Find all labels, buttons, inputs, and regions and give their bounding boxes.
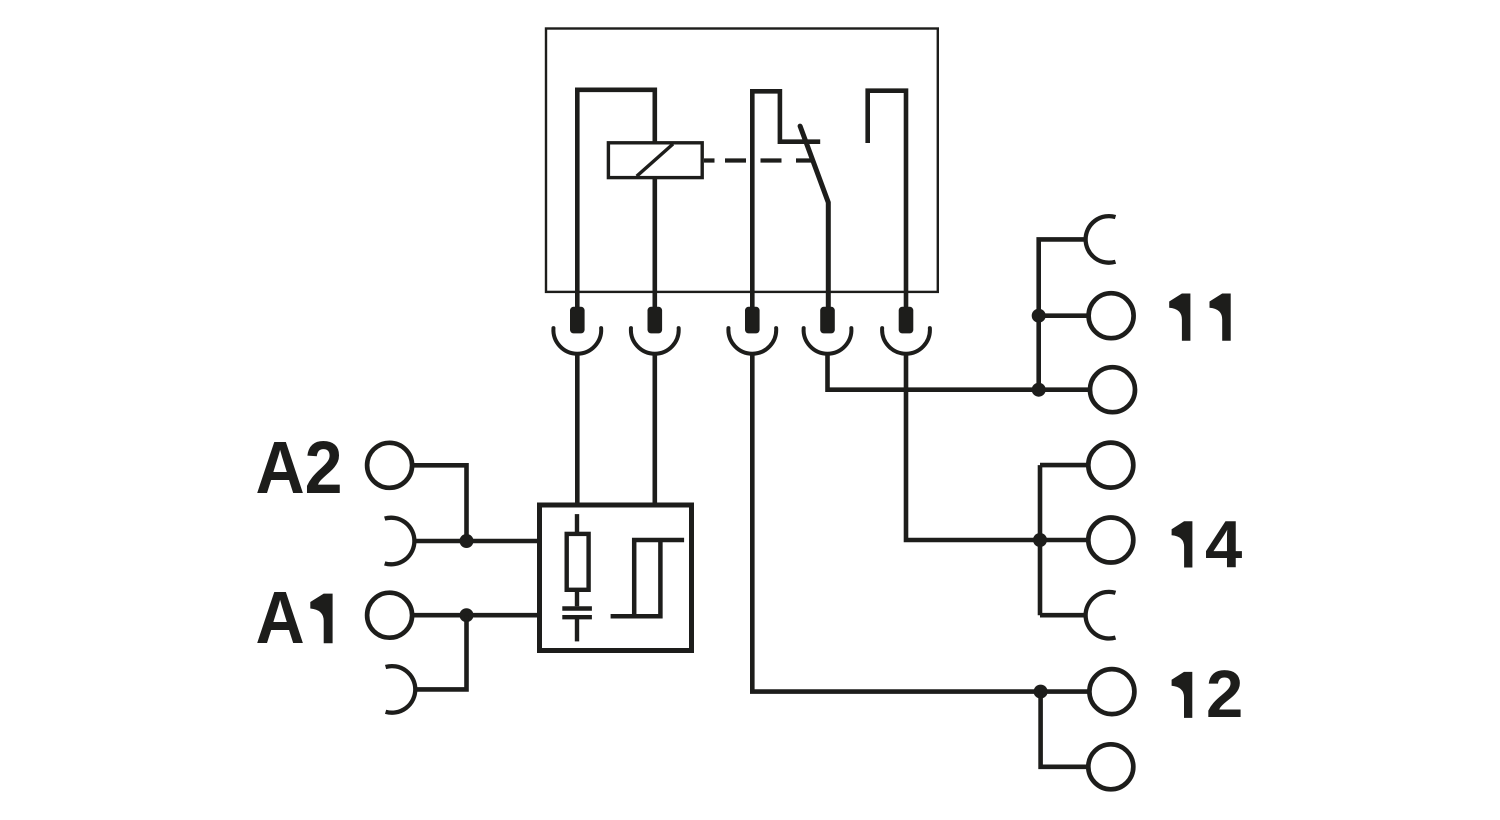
- terminal circle 12 upper: [1089, 669, 1134, 714]
- wire contact fixed terminal (pin3): [752, 91, 820, 307]
- terminal circle A1: [367, 593, 412, 638]
- junction dot A2: [460, 534, 474, 548]
- node 14 vertical bus: [1038, 465, 1043, 615]
- socket 5: [882, 328, 930, 354]
- socket 11 top (open right): [1086, 216, 1116, 263]
- terminal circle 11 lower: [1090, 367, 1135, 412]
- wire pin1 to suppressor box: [575, 353, 580, 505]
- socket 1: [553, 328, 601, 354]
- terminal circle 11 middle: [1089, 293, 1134, 338]
- label 11: [1169, 294, 1190, 341]
- capacitor C1 plate top: [562, 606, 592, 610]
- svg-text:A: A: [256, 577, 305, 659]
- svg-text:A2: A2: [256, 427, 343, 509]
- socket A2 (open left): [385, 518, 415, 565]
- resistor R1: [567, 534, 589, 590]
- junction dot A1: [460, 608, 474, 622]
- hysteresis symbol bottom-right branch: [611, 540, 661, 616]
- plug pin 4: [820, 307, 835, 334]
- socket 2: [631, 328, 679, 354]
- relay outline box K1: [546, 29, 938, 292]
- plug pin 5: [899, 307, 914, 334]
- wire to terminal 11 middle: [1039, 313, 1089, 318]
- wire A1 to suppressor box: [412, 613, 539, 618]
- capacitor C1 plate bottom: [562, 615, 592, 619]
- wire to terminal 14 top: [1040, 463, 1088, 468]
- capacitor C1 lead bottom: [575, 617, 579, 641]
- svg-text:4: 4: [1205, 508, 1242, 583]
- plug pin 1: [570, 307, 585, 334]
- terminal circle 14 top: [1088, 443, 1133, 488]
- svg-text:2: 2: [1206, 657, 1243, 732]
- terminal circle A2: [367, 443, 412, 488]
- wire socket A2 to suppressor box: [414, 539, 539, 544]
- wire A2 to bus: [412, 465, 466, 541]
- plug pin 2: [648, 307, 663, 334]
- wire coil leads (pin1 vertical + top bridge + pin2 drop): [577, 90, 655, 307]
- wire node 12 down to lower terminal: [1041, 692, 1089, 767]
- wire pin5 down and right to node 14: [906, 353, 1088, 540]
- dashed actuation link: [704, 158, 812, 162]
- socket 14 bottom (open right): [1086, 592, 1116, 639]
- junction dot node 12: [1034, 685, 1048, 699]
- terminal circle 14 middle: [1088, 518, 1133, 563]
- terminal circle 12 lower: [1088, 744, 1133, 789]
- wire pin2 to suppressor box: [652, 353, 657, 505]
- coil diagonal slash: [637, 144, 673, 176]
- wire pin3 down and right to node 12: [752, 353, 1089, 691]
- resistor R1 lead bottom: [575, 590, 579, 607]
- label 12: [1172, 672, 1193, 718]
- socket A1 (open left): [386, 666, 416, 713]
- wire A1 bus down to socket: [414, 615, 466, 689]
- node 11 vertical bus: [1039, 239, 1086, 389]
- resistor R1 lead top: [575, 514, 579, 534]
- wire pin2 below coil: [652, 178, 657, 307]
- coil K1 rectangle: [608, 143, 702, 178]
- label 14: [1172, 521, 1193, 567]
- junction dot node 11 lower: [1032, 383, 1046, 397]
- wire to socket 14 bottom: [1040, 613, 1086, 618]
- wire pin4 down and right to node 11: [828, 353, 1090, 390]
- junction dot node 11 upper: [1032, 309, 1046, 323]
- contact moving arm (to pin4): [800, 126, 828, 307]
- wire NC jumper (pin5): [868, 91, 906, 307]
- hysteresis symbol top-left branch: [634, 540, 684, 616]
- socket 4: [804, 328, 852, 354]
- suppressor box U1: [540, 505, 692, 651]
- socket 3: [728, 328, 776, 354]
- junction dot node 14: [1033, 533, 1047, 547]
- plug pin 3: [745, 307, 760, 334]
